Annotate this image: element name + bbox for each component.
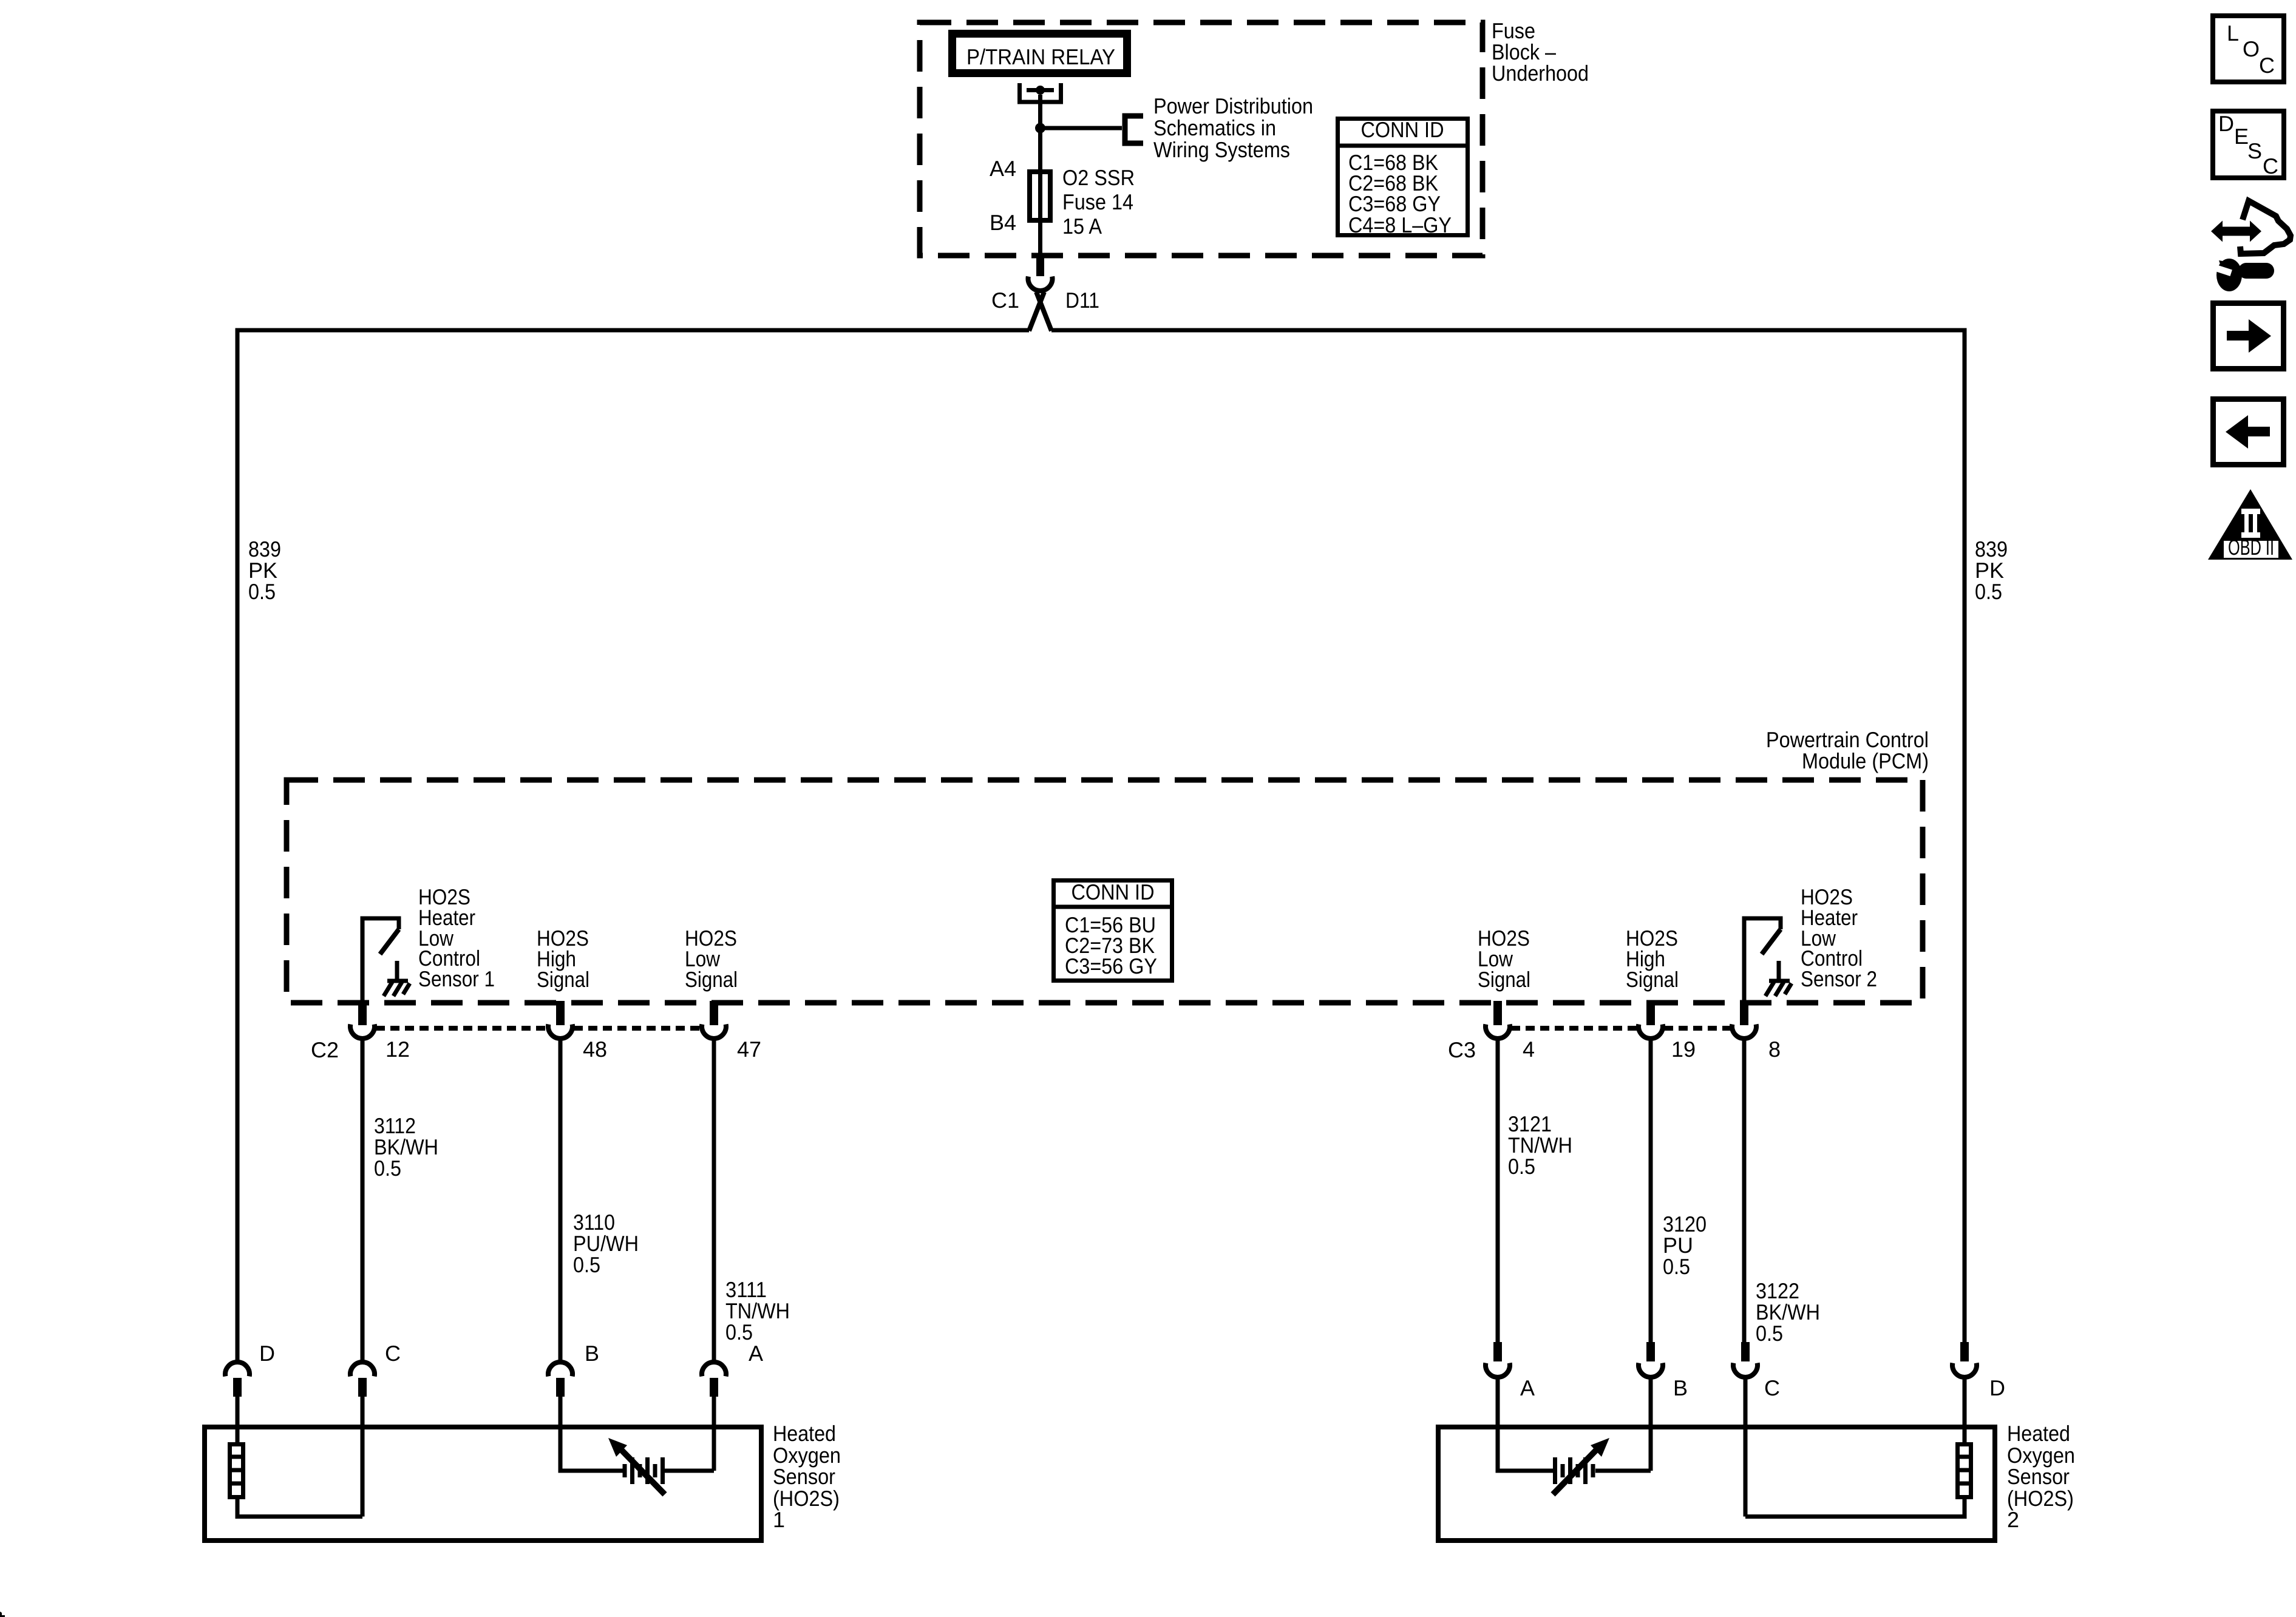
icon DESC — [2213, 111, 2284, 178]
pin 4 stub (PCM) — [1493, 1001, 1502, 1025]
connector pin D (HO2S 1) — [225, 1362, 250, 1427]
relay contact switch — [1020, 83, 1061, 128]
svg-text:Sensor: Sensor — [773, 1464, 835, 1489]
svg-text:8: 8 — [1768, 1037, 1781, 1062]
connector pin A (HO2S 1) — [702, 1362, 726, 1427]
PCM dashed box — [287, 780, 1923, 1003]
page corner mark — [0, 1612, 5, 1617]
pin 4 socket arc — [1486, 1025, 1510, 1039]
svg-text:Heated: Heated — [2007, 1421, 2070, 1446]
label Power Distribution Schematics in Wiring Systems — [1153, 93, 1313, 162]
svg-text:B: B — [1673, 1375, 1688, 1400]
svg-text:Signal: Signal — [685, 967, 738, 992]
pin 12 stub (PCM) — [358, 1001, 367, 1025]
svg-text:0.5: 0.5 — [1663, 1254, 1690, 1279]
connector row dotted line C2 — [376, 1026, 547, 1031]
svg-text:19: 19 — [1671, 1037, 1696, 1062]
svg-text:Sensor 1: Sensor 1 — [418, 966, 495, 991]
fuse F (O2 SSR Fuse 14) — [1030, 172, 1050, 220]
connector pin D (HO2S 2) — [1952, 1342, 1977, 1427]
svg-text:0.5: 0.5 — [573, 1252, 600, 1277]
HO2S sensor 2 box — [1438, 1427, 1995, 1541]
wire 3122 BK/WH — [1742, 1040, 1747, 1344]
svg-text:A: A — [749, 1341, 763, 1366]
svg-text:P/TRAIN RELAY: P/TRAIN RELAY — [966, 44, 1115, 69]
label 839 PK 0.5 left — [248, 537, 281, 604]
connector C1/D11 socket arc — [1028, 277, 1053, 291]
connector pin C (HO2S 2) — [1733, 1342, 1758, 1427]
pin 48 stub (PCM) — [556, 1001, 565, 1025]
wire relay to fuse — [1038, 128, 1042, 257]
svg-text:Power Distribution: Power Distribution — [1153, 93, 1313, 118]
wire split Y — [1029, 292, 1044, 331]
heater element (HO2S 1) — [228, 1427, 362, 1517]
connector pin B (HO2S 1) — [548, 1362, 572, 1427]
pin 19 stub (PCM) — [1646, 1001, 1655, 1025]
svg-text:C3: C3 — [1448, 1037, 1476, 1062]
switch HO2S heater low control sensor 1 — [362, 918, 399, 1003]
bracket to power distribution note — [1125, 116, 1143, 143]
pin 47 socket arc — [702, 1025, 726, 1039]
wire 3111 TN/WH — [712, 1040, 716, 1363]
junction node — [1035, 123, 1045, 134]
svg-text:C4=8 L–GY: C4=8 L–GY — [1348, 212, 1452, 237]
svg-text:0.5: 0.5 — [1975, 579, 2002, 604]
label HO2S High Signal (right) — [1626, 926, 1679, 992]
svg-text:Fuse 14: Fuse 14 — [1062, 189, 1133, 214]
heater element (HO2S 2) — [1745, 1427, 1973, 1517]
svg-text:B: B — [585, 1341, 599, 1366]
svg-text:48: 48 — [583, 1037, 607, 1062]
svg-text:C: C — [2263, 154, 2278, 178]
svg-text:Signal: Signal — [1626, 967, 1679, 992]
svg-text:0.5: 0.5 — [1508, 1154, 1535, 1179]
svg-text:C2: C2 — [311, 1037, 339, 1062]
svg-text:1: 1 — [773, 1507, 785, 1532]
svg-text:Schematics in: Schematics in — [1153, 115, 1276, 140]
wire 839 PK bus top — [237, 330, 1029, 1363]
pin 48 socket arc — [548, 1025, 572, 1039]
conn id table (fuse block) — [1336, 117, 1470, 237]
connector C1/D11 pin stub — [1036, 257, 1044, 276]
variable arrow (HO2S 2) — [1553, 1438, 1609, 1494]
svg-text:2: 2 — [2007, 1507, 2019, 1532]
svg-text:D: D — [1989, 1375, 2005, 1400]
pin 8 stub (PCM) — [1740, 1001, 1748, 1025]
label 839 PK 0.5 right — [1975, 537, 2008, 604]
ground (sensor 1 heater control) — [384, 961, 410, 996]
connector pin B (HO2S 2) — [1639, 1342, 1663, 1427]
svg-text:D: D — [2218, 111, 2234, 136]
svg-text:15 A: 15 A — [1062, 214, 1102, 239]
svg-text:D: D — [259, 1341, 275, 1366]
connector row dotted line C3 — [1511, 1026, 1637, 1031]
svg-text:C1: C1 — [991, 288, 1019, 313]
label HO2S Low Signal (left) — [685, 926, 738, 992]
svg-text:47: 47 — [737, 1037, 761, 1062]
svg-text:Sensor 2: Sensor 2 — [1801, 966, 1877, 991]
label O2 SSR Fuse 14 15 A — [1062, 165, 1135, 239]
wire 3110 PU/WH — [559, 1040, 563, 1363]
svg-text:0.5: 0.5 — [374, 1156, 401, 1181]
svg-text:B4: B4 — [990, 210, 1016, 235]
svg-text:Module (PCM): Module (PCM) — [1802, 748, 1929, 773]
sensor element battery (HO2S 2) — [1498, 1427, 1651, 1484]
pin 47 stub (PCM) — [710, 1001, 718, 1025]
svg-text:4: 4 — [1523, 1037, 1535, 1062]
svg-text:Heated: Heated — [773, 1421, 836, 1446]
icon arrow left — [2213, 399, 2284, 465]
svg-text:C3=56 GY: C3=56 GY — [1065, 954, 1157, 978]
sensor element battery (HO2S 1) — [560, 1427, 714, 1484]
svg-text:C: C — [1764, 1375, 1780, 1400]
svg-text:0.5: 0.5 — [248, 579, 276, 604]
svg-text:CONN ID: CONN ID — [1072, 880, 1155, 904]
svg-text:CONN ID: CONN ID — [1361, 117, 1444, 142]
icon arrow right — [2213, 303, 2284, 369]
svg-text:A4: A4 — [990, 156, 1016, 181]
icon diagnostic tool (arrow + wrench) — [2210, 201, 2291, 291]
ground (sensor 2 heater control) — [1765, 961, 1792, 996]
label Powertrain Control Module (PCM) — [1766, 727, 1929, 773]
svg-text:E: E — [2234, 124, 2249, 149]
label HO2S Heater Low Control Sensor 2 — [1801, 884, 1877, 991]
variable arrow (HO2S 1) — [608, 1438, 665, 1494]
svg-text:S: S — [2247, 138, 2262, 163]
switch HO2S heater low control sensor 2 — [1744, 918, 1781, 1003]
svg-text:C: C — [385, 1341, 401, 1366]
label HO2S Heater Low Control Sensor 1 — [418, 884, 495, 991]
wire 3112 BK/WH — [361, 1040, 365, 1363]
svg-text:0.5: 0.5 — [1756, 1321, 1783, 1346]
svg-text:O: O — [2243, 36, 2260, 61]
svg-text:L: L — [2227, 21, 2239, 46]
pin 19 socket arc — [1639, 1025, 1663, 1039]
wire 3120 PU — [1649, 1040, 1653, 1344]
label HO2S Low Signal (right) — [1478, 926, 1530, 992]
label Fuse Block - Underhood — [1492, 18, 1589, 86]
svg-text:Wiring Systems: Wiring Systems — [1153, 137, 1290, 162]
connector pin C (HO2S 1) — [350, 1362, 375, 1427]
relay K (P/TRAIN RELAY) — [953, 34, 1127, 73]
svg-text:D11: D11 — [1065, 288, 1099, 313]
svg-text:A: A — [1520, 1375, 1535, 1400]
svg-text:OBD II: OBD II — [2228, 535, 2274, 560]
svg-text:Underhood: Underhood — [1492, 61, 1589, 86]
svg-text:Signal: Signal — [537, 967, 589, 992]
label HO2S High Signal (left) — [537, 926, 589, 992]
pin 12 socket arc — [350, 1025, 375, 1039]
svg-text:12: 12 — [385, 1037, 410, 1062]
svg-text:O2 SSR: O2 SSR — [1062, 165, 1135, 190]
svg-text:Sensor: Sensor — [2007, 1464, 2070, 1489]
fuse block underhood (dashed box) — [920, 22, 1483, 256]
icon LOC — [2213, 16, 2284, 82]
wire 3121 TN/WH — [1496, 1040, 1500, 1344]
wire to power distribution reference — [1041, 126, 1123, 131]
connector pin A (HO2S 2) — [1486, 1342, 1510, 1427]
icon OBD II triangle — [2208, 489, 2292, 560]
conn id table (PCM) — [1051, 880, 1174, 981]
HO2S sensor 1 box — [205, 1427, 761, 1541]
svg-text:C: C — [2259, 53, 2275, 78]
svg-text:Signal: Signal — [1478, 967, 1530, 992]
pin 8 socket arc — [1732, 1025, 1756, 1039]
